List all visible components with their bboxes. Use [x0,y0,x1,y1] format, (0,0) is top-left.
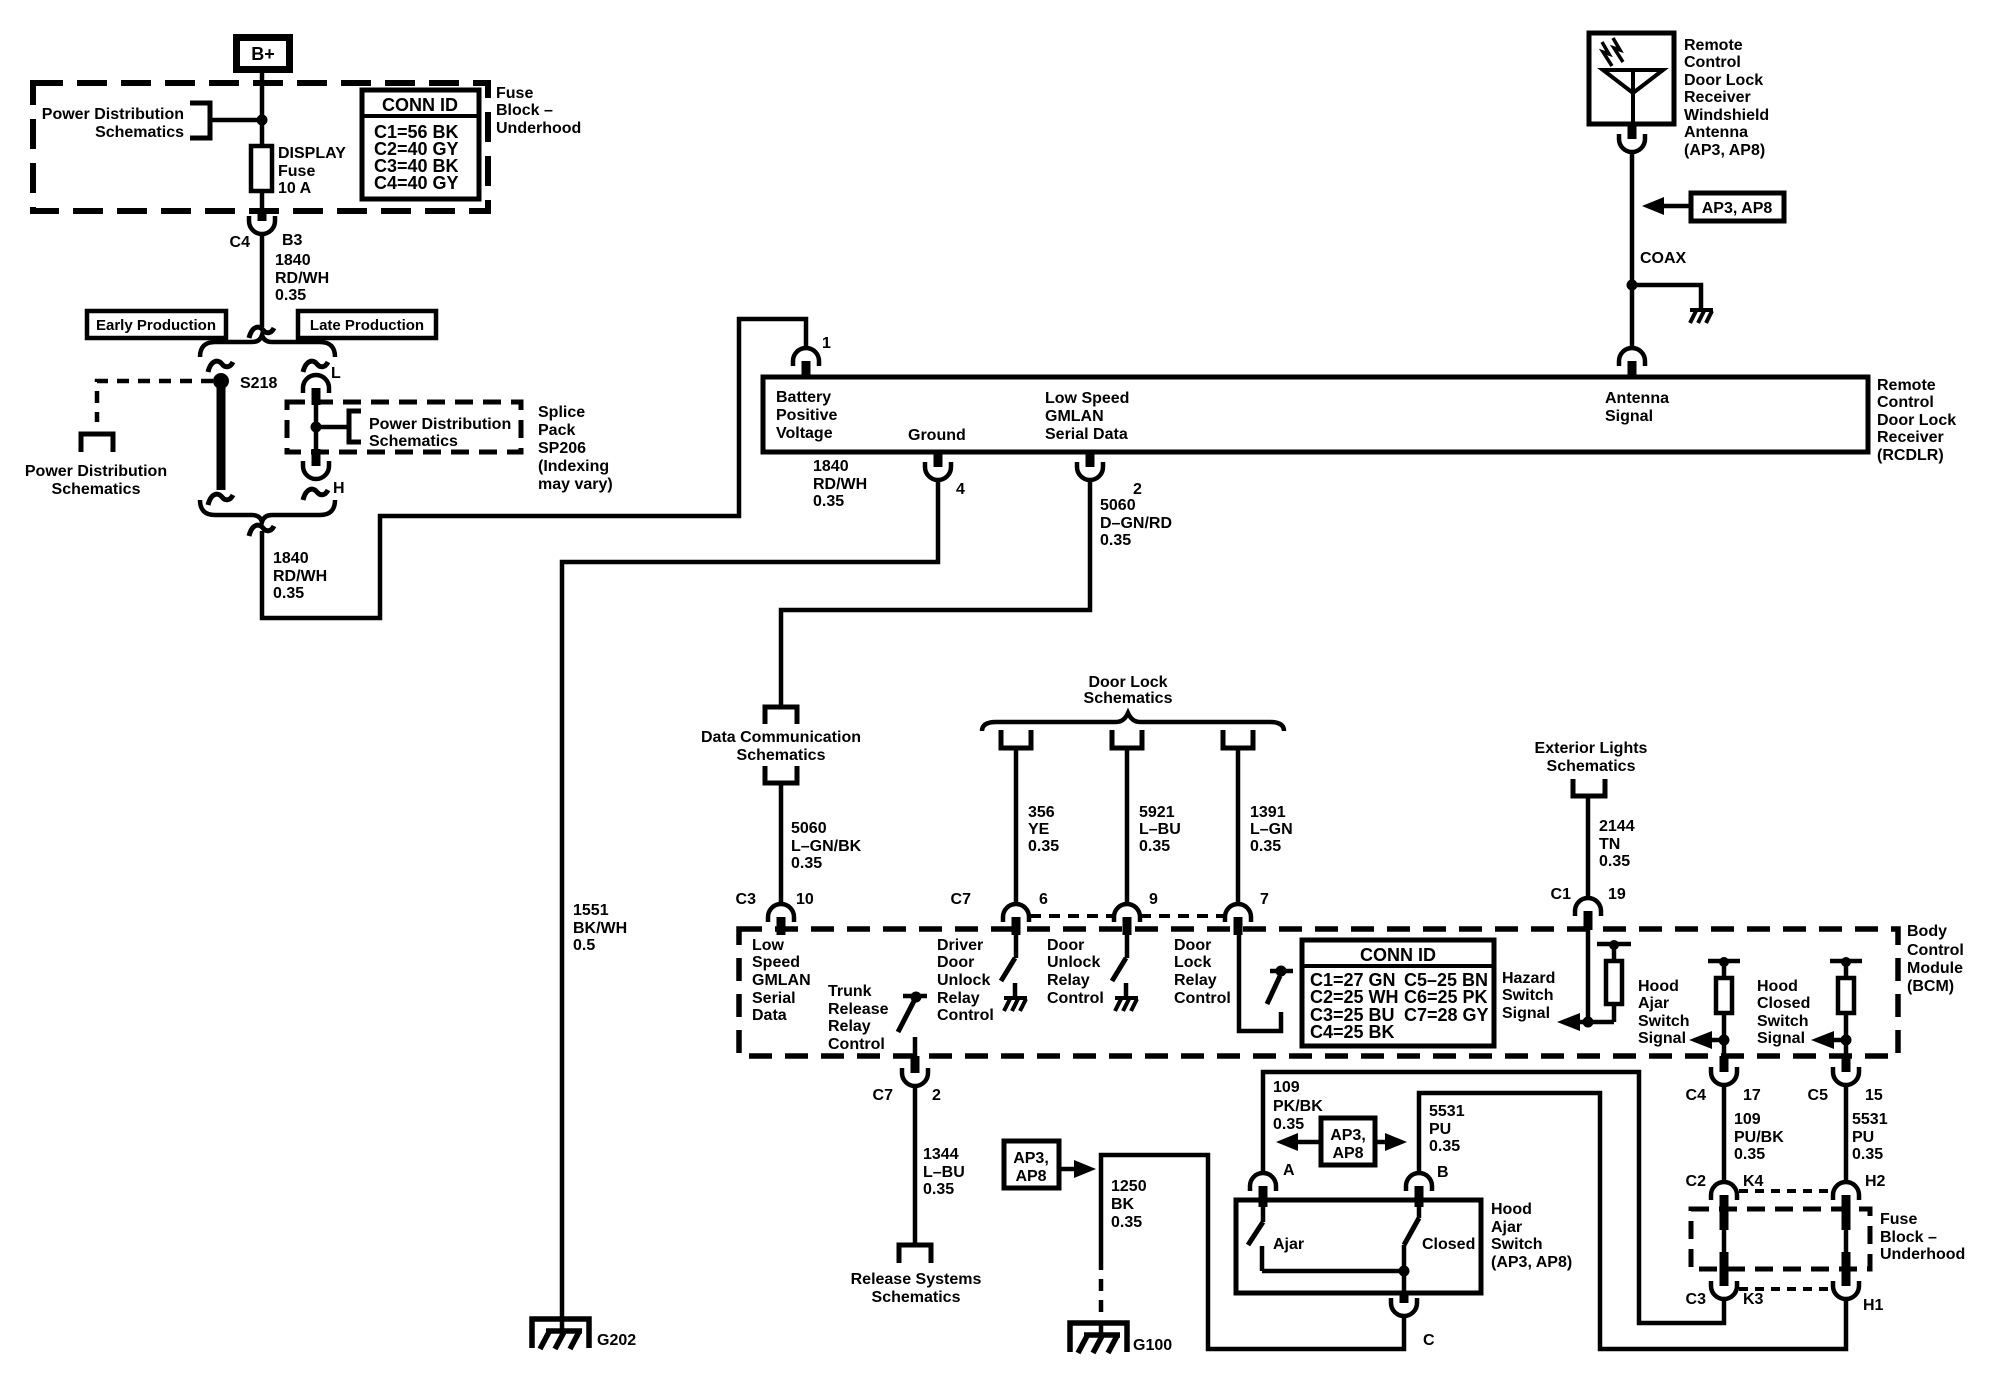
pin label Driver Door Unlock Relay Control [937,937,994,1024]
svg-text:Door: Door [1047,937,1084,954]
label 1250 BK 0.35 [1111,1178,1147,1231]
label 5060 D-GN/RD 0.35 [1100,497,1172,549]
svg-text:Module: Module [1907,960,1963,977]
svg-text:(BCM): (BCM) [1907,978,1954,995]
svg-text:Control: Control [937,1007,994,1024]
connector H late branch [303,461,329,479]
svg-text:(AP3, AP8): (AP3, AP8) [1684,142,1765,159]
svg-text:19: 19 [1608,886,1626,903]
wire coax shield to ground [1632,285,1701,310]
svg-text:Release: Release [828,1001,889,1018]
svg-text:0.35: 0.35 [813,493,844,510]
wire 1840 RD/WH C4 to split [260,234,265,327]
svg-text:109: 109 [1734,1111,1761,1128]
svg-text:Trunk: Trunk [828,983,872,1000]
connector H2 [1833,1173,1886,1230]
wire end hook early branch bottom [208,494,233,505]
svg-text:GMLAN: GMLAN [752,972,811,989]
wire hazard switch signal C1-19 [1586,930,1591,1022]
svg-text:C1: C1 [1551,886,1572,903]
pin label Hood Ajar Switch Signal [1638,978,1690,1047]
svg-text:Fuse: Fuse [496,85,533,102]
connector C3 K3 [1686,1281,1764,1308]
svg-text:CONN ID: CONN ID [1360,945,1436,965]
connector antenna signal pin RCDLR [1619,348,1645,378]
svg-text:0.35: 0.35 [791,855,822,872]
svg-text:L: L [331,365,341,382]
svg-text:Serial Data: Serial Data [1045,426,1128,443]
svg-text:1250: 1250 [1111,1178,1147,1195]
svg-text:C7: C7 [951,891,972,908]
ground coax shield [1690,310,1713,323]
svg-text:Schematics: Schematics [95,124,184,141]
CONN ID table (BCM) [1302,940,1494,1046]
arrow hazard switch signal [1557,1013,1614,1031]
svg-text:10 A: 10 A [278,180,312,197]
pin label Low Speed GMLAN Serial Data [1045,390,1129,443]
junction hood ajar signal [1719,1035,1730,1046]
svg-text:PU: PU [1429,1121,1451,1138]
svg-text:Signal: Signal [1757,1030,1805,1047]
svg-text:H1: H1 [1863,1297,1884,1314]
svg-text:GMLAN: GMLAN [1045,408,1104,425]
connector pin 9 BCM [1114,891,1158,935]
pin label Battery Positive Voltage [776,389,837,442]
svg-text:Relay: Relay [1047,972,1090,989]
wire 1391 L-GN [1236,748,1241,904]
svg-text:C2=25 WH: C2=25 WH [1310,987,1399,1007]
svg-text:0.5: 0.5 [573,937,595,954]
svg-text:10: 10 [796,891,814,908]
wire 1551 BK/WH pin 4 to G202 [562,480,938,1330]
svg-text:C3: C3 [1686,1291,1707,1308]
label 109 PU/BK 0.35 [1734,1111,1784,1163]
node door lock feed 1391 [1223,730,1253,748]
pin label Trunk Release Relay Control [828,983,889,1053]
svg-text:Door: Door [937,954,974,971]
svg-text:C4=40 GY: C4=40 GY [374,173,459,193]
svg-text:1: 1 [822,335,831,352]
svg-text:Ajar: Ajar [1273,1236,1304,1253]
switch contact Ajar [1248,1207,1304,1271]
svg-text:1840: 1840 [813,458,849,475]
svg-text:Hood: Hood [1638,978,1679,995]
svg-text:Underhood: Underhood [496,120,581,137]
svg-text:RD/WH: RD/WH [273,568,327,585]
switch driver door unlock relay driver [1001,930,1016,998]
svg-text:Serial: Serial [752,990,796,1007]
svg-text:Relay: Relay [1174,972,1217,989]
svg-text:D–GN/RD: D–GN/RD [1100,515,1172,532]
power node B+ [237,38,290,70]
node AP3 AP8 (antenna) [1642,193,1784,221]
svg-text:PU/BK: PU/BK [1734,1129,1784,1146]
label 1840 RD/WH 0.35 (pin 1) [813,458,867,510]
svg-text:H2: H2 [1865,1173,1886,1190]
label 1840 RD/WH 0.35 (top) [275,252,329,304]
connector C5 pin 15 BCM (hood closed) [1808,1056,1883,1104]
wire 5531 PU C5-15 to H2 [1844,1085,1849,1182]
svg-text:Control: Control [1684,54,1741,71]
wire 356 YE [1014,748,1019,904]
svg-text:may vary): may vary) [538,476,613,493]
svg-text:Power Distribution: Power Distribution [25,463,167,480]
svg-text:Power Distribution: Power Distribution [369,416,511,433]
wire common to C terminal [1402,1271,1407,1293]
svg-text:0.35: 0.35 [1250,838,1281,855]
svg-text:Data Communication: Data Communication [701,729,861,746]
svg-text:0.35: 0.35 [1139,838,1170,855]
svg-text:C5: C5 [1808,1087,1829,1104]
connector H1 [1833,1281,1884,1314]
svg-text:Remote: Remote [1684,37,1743,54]
antenna windshield box [1589,33,1674,124]
label Power Distribution Schematics (fuse block) [42,106,184,141]
svg-text:Schematics: Schematics [1084,690,1173,707]
svg-text:0.35: 0.35 [1599,853,1630,870]
svg-text:5060: 5060 [791,820,827,837]
svg-text:C4=25 BK: C4=25 BK [1310,1022,1395,1042]
junction switch common [1399,1266,1410,1277]
svg-text:Unlock: Unlock [1047,954,1100,971]
svg-text:4: 4 [956,481,965,498]
label DISPLAY Fuse 10 A [278,145,346,197]
connector C4 B3 [230,211,303,251]
wire 5060 pin 2 to data communication [781,480,1090,707]
wire 2144 TN [1586,796,1591,898]
brace door lock schematics [982,713,1284,731]
svg-text:(AP3, AP8): (AP3, AP8) [1491,1254,1572,1271]
svg-text:RD/WH: RD/WH [275,270,329,287]
svg-text:1840: 1840 [273,550,309,567]
switch contact Closed [1404,1207,1475,1271]
svg-text:SP206: SP206 [538,440,586,457]
label Fuse Block Underhood (bottom) [1880,1211,1965,1263]
label Door Lock Schematics [1084,674,1173,707]
svg-text:0.35: 0.35 [1028,838,1059,855]
svg-text:1391: 1391 [1250,804,1286,821]
connector pin 7 BCM [1225,891,1269,935]
svg-text:L–GN: L–GN [1250,821,1293,838]
svg-text:Door: Door [1174,937,1211,954]
svg-text:0.35: 0.35 [1734,1146,1765,1163]
svg-text:356: 356 [1028,804,1055,821]
pin label Door Unlock Relay Control [1047,937,1104,1007]
node AP3 AP8 (ground run) [1004,1141,1096,1188]
ground G100 [1070,1323,1172,1354]
junction splice pack [311,422,322,433]
bracket power distribution feed [190,103,210,138]
svg-text:Antenna: Antenna [1684,124,1748,141]
node AP3 AP8 (hood ajar switch) [1276,1118,1407,1165]
label Splice Pack SP206 (Indexing may vary) [538,404,613,493]
label 1551 BK/WH 0.5 [573,902,627,954]
label Remote Control Door Lock Receiver (RCDLR) [1877,377,1956,464]
bracket power distribution (left) [81,434,113,452]
svg-text:Data: Data [752,1007,787,1024]
label 5531 PU 0.35 (right) [1852,1111,1888,1163]
svg-text:B3: B3 [282,232,303,249]
connector C hood ajar switch [1391,1293,1435,1349]
svg-text:17: 17 [1743,1087,1761,1104]
svg-text:Schematics: Schematics [1547,758,1636,775]
arrow hood closed switch signal [1811,1031,1846,1049]
svg-text:Receiver: Receiver [1684,89,1751,106]
wire 1840 splice to RCDLR pin 1 [262,319,806,618]
module RCDLR box [763,377,1868,452]
wire 1344 L-BU trunk release [913,1086,918,1245]
svg-text:(Indexing: (Indexing [538,458,609,475]
svg-text:Exterior Lights: Exterior Lights [1535,740,1648,757]
switch hood ajar box [1236,1200,1481,1293]
splice S218 [213,373,277,392]
svg-text:Control: Control [828,1036,885,1053]
svg-text:COAX: COAX [1640,250,1687,267]
connector pin 2 RCDLR [1077,452,1142,498]
svg-text:AP3,: AP3, [1013,1150,1049,1167]
svg-text:9: 9 [1149,891,1158,908]
junction hazard signal [1583,1017,1594,1028]
wire bracket to junction [210,118,262,123]
svg-text:Body: Body [1907,923,1947,940]
svg-text:Fuse: Fuse [278,163,315,180]
wire 5921 L-BU [1125,748,1130,904]
svg-text:K3: K3 [1743,1291,1764,1308]
label 1391 L-GN 0.35 [1250,804,1293,855]
fuse block underhood dashed box (bottom) [1691,1209,1870,1269]
svg-text:Schematics: Schematics [737,747,826,764]
svg-text:C3: C3 [736,891,757,908]
wire fuse to connector C4 [260,191,265,212]
svg-text:Ground: Ground [908,427,966,444]
connector C1 pin 19 BCM [1551,886,1626,930]
label Hood Ajar Switch (AP3, AP8) [1491,1201,1572,1271]
brace early/late split [200,335,335,357]
svg-text:C4: C4 [1686,1087,1707,1104]
wire S218 bus [217,381,226,490]
svg-text:Remote: Remote [1877,377,1936,394]
pin label Low Speed GMLAN Serial Data (BCM) [752,937,811,1024]
label 5921 L-BU 0.35 [1139,804,1181,855]
svg-text:Control: Control [1907,942,1964,959]
svg-text:Switch: Switch [1502,987,1554,1004]
svg-text:Underhood: Underhood [1880,1246,1965,1263]
pin label Hazard Switch Signal [1502,970,1555,1022]
connector C7 pin 6 BCM [951,891,1048,935]
module BCM dashed box [739,929,1898,1056]
antenna symbol [1602,38,1663,124]
label 5060 L-GN/BK 0.35 [791,820,862,872]
bracket power distribution (splice pack) [349,411,361,442]
svg-text:Splice: Splice [538,404,585,421]
label 1840 RD/WH 0.35 (splice out) [273,550,327,602]
svg-text:YE: YE [1028,821,1050,838]
splice pack SP206 dashed box [287,402,521,452]
stub L into splice pack [312,388,321,405]
svg-text:2144: 2144 [1599,818,1635,835]
svg-text:Low: Low [752,937,785,954]
svg-text:Switch: Switch [1757,1013,1809,1030]
svg-text:Schematics: Schematics [872,1289,961,1306]
svg-text:Door Lock: Door Lock [1088,674,1167,691]
resistor BCM hazard pull-up [1597,940,1631,1022]
svg-text:(RCDLR): (RCDLR) [1877,447,1944,464]
pin label Hood Closed Switch Signal [1757,978,1810,1047]
node exterior lights schematics [1573,779,1605,796]
svg-text:1344: 1344 [923,1146,959,1163]
junction hood closed signal [1841,1035,1852,1046]
svg-text:Pack: Pack [538,422,575,439]
svg-text:B+: B+ [251,44,275,64]
brace early/late merge [200,500,335,522]
label 5531 PU 0.35 (left) [1429,1103,1465,1155]
svg-text:Antenna: Antenna [1605,390,1669,407]
svg-text:CONN ID: CONN ID [382,95,458,115]
svg-text:0.35: 0.35 [1852,1146,1883,1163]
svg-text:TN: TN [1599,836,1620,853]
svg-text:C4: C4 [230,234,251,251]
svg-text:Switch: Switch [1638,1013,1690,1030]
switch trunk release relay driver [898,992,927,1057]
svg-text:AP8: AP8 [1332,1145,1363,1162]
svg-text:PK/BK: PK/BK [1273,1098,1323,1115]
wire junction to bracket [316,425,349,430]
ground G202 [532,1319,636,1349]
junction B+ feed [257,115,268,126]
stub H out of splice pack [312,449,321,466]
wire dashed S218 to power distribution [97,381,213,422]
svg-text:5921: 5921 [1139,804,1175,821]
arrow hood ajar switch signal [1689,1031,1724,1049]
junction coax shield [1627,280,1638,291]
wire end hook late branch top [303,361,328,372]
svg-text:5531: 5531 [1852,1111,1888,1128]
wire dashed K3 to H1 [1739,1287,1834,1291]
node Late Production [298,311,436,338]
node door lock feed 356 [1001,730,1031,748]
node door lock feed 5921 [1112,730,1142,748]
svg-text:0.35: 0.35 [1273,1116,1304,1133]
svg-text:K4: K4 [1743,1173,1764,1190]
svg-text:Signal: Signal [1605,408,1653,425]
svg-text:Unlock: Unlock [937,972,990,989]
connector pin 1 RCDLR [793,335,831,378]
svg-text:Closed: Closed [1422,1236,1475,1253]
wire end hook below merge [249,525,274,536]
resistor BCM hood ajar pull-up [1708,957,1740,1056]
svg-text:2: 2 [1133,481,1142,498]
node data communication schematics [701,707,861,783]
fuse block underhood dashed box [33,83,488,211]
svg-text:Door Lock: Door Lock [1877,412,1956,429]
wire H2 to H1 through fuse block [1844,1230,1849,1286]
svg-text:Relay: Relay [937,990,980,1007]
connector antenna box output [1619,124,1645,152]
svg-text:Schematics: Schematics [52,481,141,498]
svg-text:Battery: Battery [776,389,831,406]
label Power Distribution Schematics (splice pack) [369,416,511,450]
svg-text:Low Speed: Low Speed [1045,390,1129,407]
CONN ID table (fuse block) [362,90,479,199]
svg-text:2: 2 [932,1087,941,1104]
svg-text:Closed: Closed [1757,995,1810,1012]
svg-text:0.35: 0.35 [1429,1138,1460,1155]
wire switch common [1262,1269,1404,1274]
label 1344 L-BU 0.35 [923,1146,965,1198]
svg-text:Relay: Relay [828,1018,871,1035]
wire K4 to K3 through fuse block [1722,1230,1727,1286]
svg-text:Fuse: Fuse [1880,1211,1917,1228]
wire splice pack internal [314,405,319,449]
label Exterior Lights Schematics [1535,740,1648,775]
wire end hook early branch top [208,361,233,372]
svg-text:S218: S218 [240,375,277,392]
wire end hook above split brace [249,327,274,338]
svg-text:Control: Control [1174,990,1231,1007]
svg-text:Lock: Lock [1174,954,1211,971]
svg-text:6: 6 [1039,891,1048,908]
ground BCM internal (driver door unlock) [1004,998,1027,1011]
svg-text:C6=25 PK: C6=25 PK [1404,987,1488,1007]
svg-text:Windshield: Windshield [1684,107,1769,124]
svg-text:Block –: Block – [496,102,553,119]
svg-text:AP3,: AP3, [1330,1127,1366,1144]
svg-text:L–BU: L–BU [1139,821,1181,838]
svg-text:G202: G202 [597,1332,636,1349]
svg-text:Signal: Signal [1638,1030,1686,1047]
svg-text:Block –: Block – [1880,1229,1937,1246]
svg-text:RD/WH: RD/WH [813,476,867,493]
svg-text:Release Systems: Release Systems [851,1271,982,1288]
connector L late branch [303,375,329,393]
connector C2 K4 [1686,1173,1764,1230]
connector C4 pin 17 BCM (hood ajar) [1686,1056,1761,1104]
label Fuse Block Underhood (top) [496,85,581,137]
svg-text:G100: G100 [1133,1337,1172,1354]
svg-text:0.35: 0.35 [923,1181,954,1198]
wire 109 PU/BK C4-17 to K4 [1722,1085,1727,1182]
connector C3 pin 10 BCM [736,891,814,935]
svg-text:Door Lock: Door Lock [1684,72,1763,89]
label 109 PK/BK 0.35 [1273,1079,1323,1133]
svg-text:A: A [1283,1162,1295,1179]
svg-text:C7: C7 [873,1087,894,1104]
wire dashed K4 to H2 [1739,1189,1834,1193]
svg-text:0.35: 0.35 [1100,532,1131,549]
svg-text:C: C [1423,1332,1435,1349]
connector C7 pin 2 BCM (trunk release) [873,1056,941,1104]
switch door lock relay driver [1239,930,1293,1031]
svg-text:L–GN/BK: L–GN/BK [791,838,862,855]
wire coax antenna [1630,152,1635,348]
wire B+ to fuse [260,73,265,146]
pin label Door Lock Relay Control [1174,937,1231,1007]
svg-text:C2: C2 [1686,1173,1707,1190]
svg-text:Control: Control [1047,990,1104,1007]
label Power Distribution Schematics (left) [25,463,167,498]
svg-text:Receiver: Receiver [1877,429,1944,446]
wire 1250 BK C terminal to ground run [1101,1155,1404,1349]
svg-text:0.35: 0.35 [273,585,304,602]
wire end hook H [303,489,328,500]
label Remote Control Door Lock Receiver Windshield Antenna (AP3, AP8) [1684,37,1769,159]
svg-text:Speed: Speed [752,954,800,971]
svg-text:B: B [1437,1164,1449,1181]
svg-text:5060: 5060 [1100,497,1136,514]
switch door unlock relay driver [1112,930,1127,998]
svg-text:Hood: Hood [1491,1201,1532,1218]
svg-text:0.35: 0.35 [275,287,306,304]
